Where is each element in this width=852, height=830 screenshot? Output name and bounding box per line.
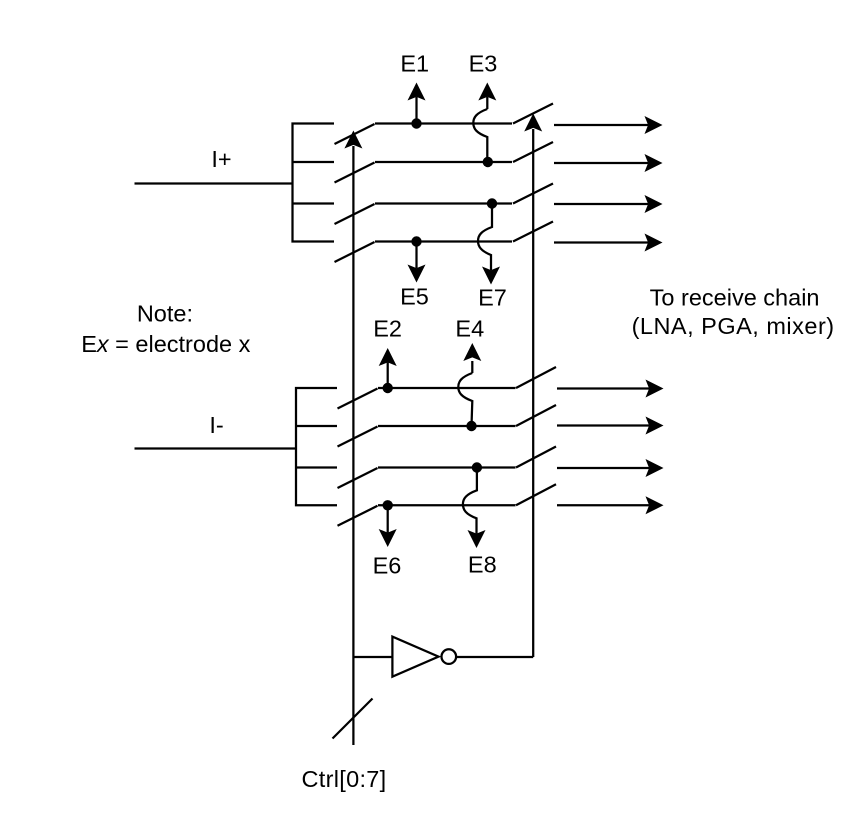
wire top row1 xyxy=(375,122,512,124)
output arrow top row2 xyxy=(554,154,663,172)
electrode E7 arrow xyxy=(478,204,500,285)
node E5 junction dot xyxy=(411,236,421,246)
node E7 junction dot xyxy=(487,198,497,208)
wire bottom row3 xyxy=(378,466,516,468)
switch S2 blade (top row2 left) xyxy=(335,163,375,183)
switch S4 blade (top row4 left) xyxy=(335,242,375,262)
output arrow bottom row1 xyxy=(557,380,664,398)
output arrow top row1 xyxy=(554,116,663,134)
wire top row3 xyxy=(375,202,512,204)
node E8 junction dot xyxy=(472,462,482,472)
switch S9 blade (top row1 right) xyxy=(513,104,553,124)
svg-text:I+: I+ xyxy=(211,146,231,172)
node E2 junction dot xyxy=(383,383,393,393)
switch S8 blade (bottom row4 left) xyxy=(338,506,378,526)
wire top row2 xyxy=(375,161,512,163)
inverter U1 triangle xyxy=(392,637,438,677)
node E3 junction dot xyxy=(483,157,493,167)
node E1 junction dot xyxy=(411,118,421,128)
output arrow bottom row4 xyxy=(557,496,664,514)
svg-text:E3: E3 xyxy=(469,51,498,77)
switch S7 blade (bottom row3 left) xyxy=(338,468,378,488)
output arrow top row3 xyxy=(554,195,663,213)
svg-text:Note:: Note: xyxy=(137,301,193,327)
wire inverter input xyxy=(353,656,392,658)
wire bottom row2 xyxy=(378,425,516,427)
switch S16 blade (bottom row4 right) xyxy=(516,484,556,505)
ctrl bus vertical line (left) with up arrow xyxy=(344,131,362,746)
electrode E8 arrow xyxy=(463,468,486,549)
switch S11 blade (top row3 right) xyxy=(513,184,553,204)
wire I- input xyxy=(135,447,297,449)
electrode E2 arrow xyxy=(379,348,397,388)
svg-text:E4: E4 xyxy=(455,316,484,342)
svg-text:E8: E8 xyxy=(468,552,497,578)
svg-text:E6: E6 xyxy=(373,553,402,579)
svg-text:To receive chain: To receive chain xyxy=(650,285,820,311)
output arrow top row4 xyxy=(554,234,663,252)
switch S5 blade (bottom row1 left) xyxy=(338,389,378,409)
switch S14 blade (bottom row2 right) xyxy=(516,405,556,426)
switch S15 blade (bottom row3 right) xyxy=(516,447,556,468)
wire inverter output xyxy=(456,656,533,658)
electrode E5 arrow xyxy=(408,242,426,283)
switch S6 blade (bottom row2 left) xyxy=(338,427,378,447)
wire I+ input xyxy=(135,182,293,184)
svg-text:I-: I- xyxy=(209,412,223,438)
node E6 junction dot xyxy=(383,500,393,510)
svg-text:(LNA, PGA, mixer): (LNA, PGA, mixer) xyxy=(632,313,835,339)
svg-text:Ctrl[0:7]: Ctrl[0:7] xyxy=(302,766,387,792)
I+ fanout bracket xyxy=(293,124,335,242)
switch S10 blade (top row2 right) xyxy=(513,142,553,162)
electrode E6 arrow xyxy=(379,505,397,547)
node E4 junction dot xyxy=(466,421,476,431)
electrode E1 arrow xyxy=(408,83,426,124)
svg-text:E1: E1 xyxy=(400,51,429,77)
switch S12 blade (top row4 right) xyxy=(513,222,553,242)
switch S1 blade (top row1 left) xyxy=(335,124,375,144)
wire bottom row1 xyxy=(378,387,516,389)
electrode E3 arrow xyxy=(473,83,496,163)
switch S3 blade (top row3 left) xyxy=(335,204,375,224)
svg-text:E2: E2 xyxy=(373,316,402,342)
wire top row4 xyxy=(375,240,512,242)
output arrow bottom row2 xyxy=(557,417,664,435)
svg-text:E7: E7 xyxy=(478,285,507,311)
switch S13 blade (bottom row1 right) xyxy=(516,367,556,388)
inverter U1 bubble xyxy=(442,649,457,664)
svg-text:E5: E5 xyxy=(400,284,429,310)
wire bottom row4 xyxy=(378,504,516,506)
ctrl bus width slash xyxy=(333,699,373,739)
svg-text:Ex = electrode x: Ex = electrode x xyxy=(81,331,250,357)
output arrow bottom row3 xyxy=(557,459,664,477)
I- fanout bracket xyxy=(296,388,337,505)
ctrl inverted vertical line (right) with up arrow xyxy=(524,114,542,658)
electrode E4 arrow xyxy=(458,343,481,426)
